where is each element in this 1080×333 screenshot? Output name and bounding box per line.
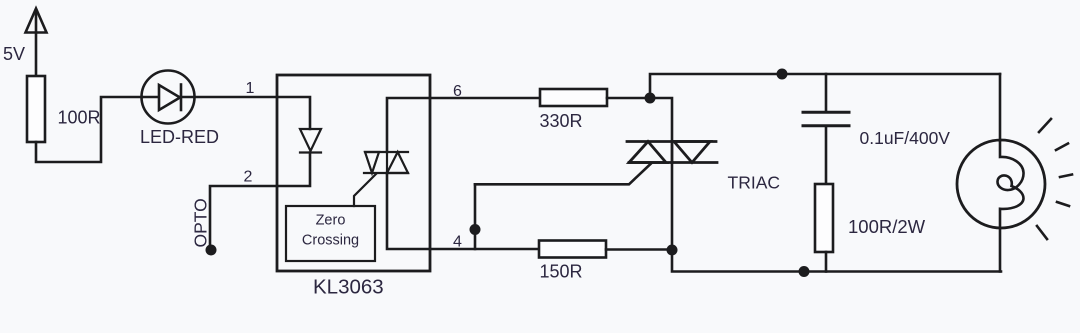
lamp filament	[997, 141, 1023, 272]
LED LED-RED circle	[142, 71, 195, 124]
wire gate branch down to pin4 net	[474, 184, 477, 249]
wire MT1 node down to bottom rail	[672, 250, 1001, 272]
wire 150R to triac MT1 node	[606, 248, 672, 251]
wire capacitor to resistor 100R/2W	[825, 126, 828, 184]
wire 5V to resistor 100R	[35, 10, 38, 76]
junction dot on top rail	[777, 69, 788, 80]
svg-text:Zero: Zero	[316, 213, 346, 229]
svg-text:0.1uF/400V: 0.1uF/400V	[860, 128, 951, 148]
zero crossing block	[286, 206, 375, 261]
svg-text:Crossing: Crossing	[302, 233, 359, 249]
wire through LED	[142, 96, 277, 99]
internal opto-triac	[364, 152, 408, 173]
svg-text:2: 2	[244, 169, 253, 186]
junction node MT2	[645, 93, 656, 104]
wire pin2 external to OPTO terminal	[210, 186, 277, 249]
internal photodiode of opto	[300, 129, 321, 153]
svg-text:1: 1	[246, 80, 255, 97]
wire pin6 internal	[387, 98, 430, 152]
svg-text:TRIAC: TRIAC	[728, 173, 781, 193]
junction node MT1	[667, 245, 678, 256]
junction dot on gate branch	[470, 224, 481, 235]
wire 100R/2W to bottom rail	[825, 252, 828, 272]
svg-text:100R: 100R	[58, 108, 101, 128]
wire pin4 to resistor 150R	[430, 248, 539, 251]
resistor 330R body	[540, 89, 607, 106]
wire node to triac MT2	[650, 98, 672, 141]
wire pin1 internal	[277, 97, 310, 129]
svg-text:150R: 150R	[540, 262, 583, 282]
lamp light rays	[1037, 119, 1072, 239]
resistor 100R/2W body	[815, 184, 833, 252]
wire pin6 to resistor 330R	[430, 97, 540, 100]
svg-text:330R: 330R	[540, 111, 583, 131]
optocoupler U1 box KL3063	[277, 75, 430, 271]
wire top rail to lamp	[999, 74, 1002, 141]
lamp circle	[957, 140, 1045, 228]
wire node up to top rail	[650, 74, 1000, 98]
wire opto-triac to pin4	[387, 173, 430, 249]
wire triac through line	[671, 163, 674, 251]
svg-text:4: 4	[453, 234, 462, 251]
resistor 100R body	[27, 76, 45, 142]
wire resistor bottom to LED anode	[36, 97, 142, 162]
svg-text:KL3063: KL3063	[313, 276, 384, 299]
5V supply arrow	[26, 9, 47, 33]
wire 330R to node MT2	[607, 97, 650, 100]
triac gate wire	[475, 164, 651, 185]
LED cathode bar	[180, 85, 183, 111]
junction dot on bottom rail	[799, 266, 810, 277]
svg-text:100R/2W: 100R/2W	[848, 216, 926, 237]
wire opto-triac gate to zero crossing block	[354, 174, 376, 206]
svg-text:5V: 5V	[3, 44, 25, 64]
svg-text:6: 6	[453, 83, 462, 100]
resistor 150R body	[539, 241, 606, 258]
triac main symbol	[627, 142, 717, 163]
OPTO terminal dot	[206, 245, 217, 256]
svg-text:OPTO: OPTO	[191, 198, 211, 247]
svg-text:LED-RED: LED-RED	[140, 127, 219, 147]
wire diode cathode to pin2	[277, 153, 310, 187]
LED diode triangle	[159, 85, 180, 110]
capacitor 0.1uF/400V	[803, 112, 849, 126]
wire top rail to capacitor	[825, 74, 828, 112]
